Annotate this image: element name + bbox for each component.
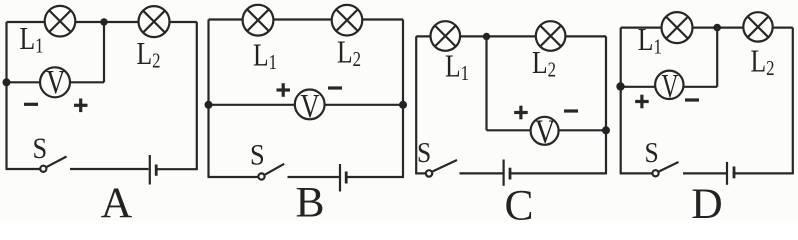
svg-text:L1: L1 bbox=[445, 49, 469, 86]
battery (B) short plate bbox=[345, 172, 348, 184]
svg-text:S: S bbox=[33, 133, 48, 166]
svg-text:L1: L1 bbox=[20, 21, 44, 58]
svg-text:S: S bbox=[250, 139, 265, 172]
switch S (A) bbox=[40, 157, 66, 172]
lamp L2 (B) bbox=[332, 5, 363, 36]
label: C voltmeter plus bbox=[514, 106, 528, 120]
wire: D bottom left segment bbox=[620, 172, 653, 174]
label: B voltmeter minus bbox=[328, 86, 342, 89]
wire: B right rail bbox=[402, 20, 404, 178]
switch S (D) bbox=[652, 162, 678, 176]
svg-text:V: V bbox=[535, 112, 556, 150]
battery (C) long plate bbox=[503, 160, 505, 186]
switch S (C) bbox=[426, 160, 457, 177]
lamp L2 (D) bbox=[743, 12, 772, 41]
battery (C) short plate bbox=[509, 168, 512, 180]
wire: A voltmeter branch vertical bbox=[103, 22, 105, 82]
svg-text:V: V bbox=[46, 63, 65, 101]
lamp L2 (C) bbox=[536, 21, 566, 51]
wire: B voltmeter middle wire bbox=[209, 104, 404, 106]
wire: C bottom right segment (battery to rail) bbox=[511, 172, 607, 174]
voltmeter V (C) bbox=[531, 112, 559, 150]
wire: D top bbox=[621, 27, 793, 29]
wire: D right rail bbox=[792, 28, 794, 174]
voltmeter V (B) bbox=[295, 87, 325, 125]
node: A top junction bbox=[100, 18, 107, 25]
wire: A voltmeter branch horizontal bbox=[7, 81, 105, 83]
svg-text:D: D bbox=[691, 180, 722, 221]
svg-text:S: S bbox=[645, 136, 659, 168]
label: A voltmeter plus bbox=[74, 99, 88, 113]
node: B left rail junction bbox=[205, 101, 213, 109]
wire: C bottom left segment bbox=[415, 172, 426, 174]
battery (A) short plate bbox=[155, 165, 158, 176]
wire: D left rail bbox=[620, 28, 622, 174]
node: A left rail junction bbox=[3, 78, 11, 86]
battery (A) long plate bbox=[149, 155, 151, 185]
wire: D voltmeter branch vertical bbox=[716, 28, 718, 87]
battery (D) short plate bbox=[733, 167, 736, 179]
battery (B) long plate bbox=[339, 164, 341, 192]
wire: D voltmeter branch horizontal bbox=[621, 86, 718, 88]
wire: A bottom left segment bbox=[6, 168, 41, 170]
svg-text:L2: L2 bbox=[137, 36, 161, 73]
lamp L2 (A) bbox=[139, 6, 170, 37]
voltmeter V (D) bbox=[655, 68, 683, 105]
wire: C right rail bbox=[605, 36, 607, 173]
label: B voltmeter plus bbox=[277, 83, 291, 97]
wire: C bottom middle segment (switch to battery) bbox=[460, 172, 503, 174]
switch S (B) bbox=[258, 164, 284, 180]
wire: C top bbox=[416, 35, 606, 37]
svg-text:C: C bbox=[504, 182, 533, 222]
wire: B bottom left segment bbox=[208, 176, 259, 178]
lamp L1 (B) bbox=[243, 5, 274, 36]
wire: B top bbox=[209, 18, 404, 20]
lamp L1 (D) bbox=[662, 12, 693, 43]
svg-text:V: V bbox=[662, 68, 679, 105]
node: C top junction bbox=[483, 33, 490, 40]
label: D voltmeter minus bbox=[685, 98, 699, 101]
wire: C voltmeter branch horizontal bbox=[487, 129, 607, 131]
wire: D bottom middle segment (switch to battery) bbox=[683, 172, 726, 174]
wire: A right rail bbox=[196, 22, 198, 169]
svg-text:B: B bbox=[295, 179, 324, 222]
wire: B bottom middle segment (switch to battery) bbox=[288, 176, 340, 178]
wire: A left rail bbox=[5, 22, 7, 169]
wire: D bottom right segment (battery to rail) bbox=[735, 172, 794, 174]
wire: C left rail bbox=[415, 36, 417, 173]
svg-text:L2: L2 bbox=[751, 44, 775, 81]
wire: A top bbox=[7, 21, 197, 23]
wire: A bottom right segment (battery to rail) bbox=[157, 168, 198, 170]
node: C right rail junction bbox=[602, 126, 610, 134]
label: D voltmeter plus bbox=[635, 95, 649, 109]
node: B right rail junction bbox=[399, 101, 407, 109]
wire: A bottom middle segment (switch to battery) bbox=[70, 168, 149, 170]
lamp L1 (A) bbox=[45, 6, 76, 37]
wire: B left rail bbox=[207, 20, 209, 178]
voltmeter V (A) bbox=[40, 63, 70, 101]
svg-text:S: S bbox=[417, 136, 431, 168]
label: A voltmeter minus bbox=[24, 103, 38, 106]
node: D top junction bbox=[713, 24, 721, 32]
svg-text:A: A bbox=[101, 179, 133, 221]
svg-text:L1: L1 bbox=[253, 38, 277, 75]
label: C voltmeter minus bbox=[564, 109, 578, 112]
node: D left rail junction bbox=[616, 82, 624, 90]
lamp L1 (C) bbox=[431, 21, 461, 51]
battery (D) long plate bbox=[726, 162, 728, 185]
svg-text:V: V bbox=[300, 87, 319, 125]
wire: C voltmeter branch vertical bbox=[485, 37, 487, 131]
svg-text:L2: L2 bbox=[337, 35, 361, 72]
wire: B bottom right segment (battery to rail) bbox=[347, 176, 404, 178]
